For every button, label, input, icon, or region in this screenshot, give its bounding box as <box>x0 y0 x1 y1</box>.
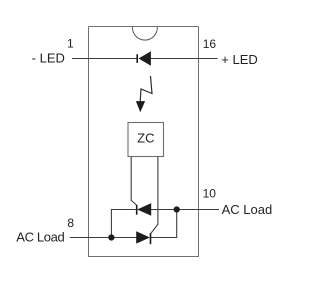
junction node pin10 side <box>174 206 180 212</box>
wire pin8 rail <box>70 237 137 239</box>
svg-text:AC Load: AC Load <box>222 202 273 217</box>
svg-text:+ LED: + LED <box>221 52 257 67</box>
wire LED anode to pin16 <box>151 58 218 60</box>
wire left riser <box>111 210 137 238</box>
SCR Q1 (upper, pointing left) <box>137 203 152 216</box>
SCR Q2 (lower, pointing right) <box>136 231 150 244</box>
svg-text:1: 1 <box>67 37 74 51</box>
wire pin1 to LED cathode <box>72 58 137 60</box>
wire pin10 rail <box>151 209 219 211</box>
svg-text:8: 8 <box>67 216 74 230</box>
junction node pin8 side <box>108 234 114 240</box>
LED D1 <box>137 51 151 66</box>
ZC zero-cross block <box>128 123 164 157</box>
svg-text:10: 10 <box>203 187 217 201</box>
svg-text:16: 16 <box>203 37 217 51</box>
svg-text:AC Load: AC Load <box>16 229 64 244</box>
light emission arrow <box>136 76 152 112</box>
ZC gate line to SCR Q2 <box>151 157 158 234</box>
IC package outline U1 <box>89 27 199 257</box>
svg-text:ZC: ZC <box>137 131 154 146</box>
svg-text:- LED: - LED <box>32 51 65 66</box>
ZC gate line to SCR Q1 <box>131 157 136 206</box>
wire right riser <box>150 210 176 238</box>
pin-1 index notch <box>132 27 157 41</box>
